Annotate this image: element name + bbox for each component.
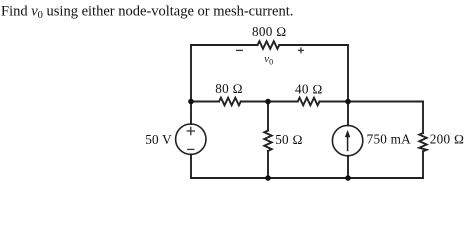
resistor R_40 zigzag xyxy=(298,98,320,106)
wire vertical from top wire down to middle node B xyxy=(347,45,349,102)
wire top-left horizontal segment xyxy=(191,44,258,46)
voltage source V1 circle xyxy=(176,124,206,154)
wire mid vertical above 50ohm xyxy=(267,102,269,131)
wire middle row: left node to 80ohm xyxy=(191,101,219,103)
wire left vertical above source xyxy=(190,45,192,124)
wire bottom xyxy=(191,177,423,179)
polarity plus label on top wire xyxy=(298,47,304,53)
wire current-source vertical below circle xyxy=(347,156,349,178)
wire current-source vertical above circle xyxy=(347,102,349,126)
svg-text:750 mA: 750 mA xyxy=(367,132,412,147)
junction node dots xyxy=(188,99,351,181)
resistor R_50 vertical squiggle xyxy=(264,131,271,152)
current source arrow xyxy=(345,131,350,152)
node dot right-middle xyxy=(345,99,351,105)
polarity minus label on top wire xyxy=(236,49,243,51)
resistor R_800 zigzag xyxy=(258,41,280,49)
resistor R_200 vertical squiggle xyxy=(419,133,426,151)
wire left vertical below source xyxy=(190,154,192,178)
voltage source plus sign xyxy=(187,127,195,150)
node dot center-middle xyxy=(265,99,271,105)
node dot center-bottom xyxy=(265,175,271,181)
wire mid vertical below 50ohm xyxy=(267,151,269,178)
svg-text:Find v0 using either node-volt: Find v0 using either node-voltage or mes… xyxy=(1,4,293,21)
node dot right-bottom xyxy=(345,175,351,181)
svg-text:v0: v0 xyxy=(264,54,273,67)
wire right vertical below 200ohm xyxy=(422,151,424,178)
wire right vertical above 200ohm xyxy=(422,102,424,134)
wire middle row between 80ohm and 40ohm xyxy=(241,101,298,103)
svg-text:200 Ω: 200 Ω xyxy=(430,132,464,147)
svg-text:50 Ω: 50 Ω xyxy=(275,132,303,147)
node dot left-middle xyxy=(188,99,194,105)
svg-text:40 Ω: 40 Ω xyxy=(295,82,323,97)
wire top-right horizontal segment xyxy=(279,44,348,46)
resistor R_80 zigzag xyxy=(219,98,241,106)
voltage source minus sign xyxy=(187,148,194,150)
wire middle row from 40ohm to right edge xyxy=(320,101,424,103)
svg-text:80 Ω: 80 Ω xyxy=(215,81,243,96)
svg-text:50 V: 50 V xyxy=(145,132,172,147)
current source I1 circle xyxy=(332,125,362,155)
svg-text:800 Ω: 800 Ω xyxy=(252,24,286,39)
